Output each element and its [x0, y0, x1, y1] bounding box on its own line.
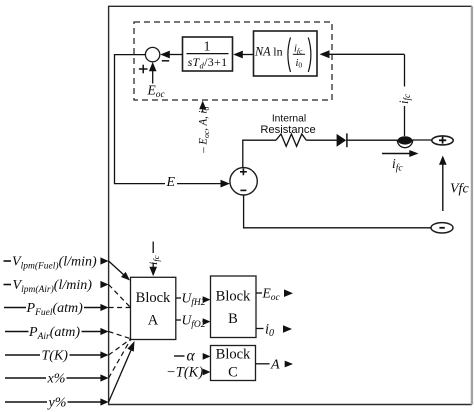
svg-text:– Eoc, A, i0: – Eoc, A, i0: [196, 107, 211, 154]
fan wire input6 to Block A corner (dashed): [109, 339, 131, 378]
svg-text:B: B: [228, 311, 238, 327]
label Internal Resistance: [260, 114, 315, 136]
bottom wire source to minus terminal: [244, 195, 431, 228]
svg-text:x%: x%: [47, 372, 66, 387]
svg-text:Resistance: Resistance: [260, 124, 315, 136]
svg-text:i0: i0: [296, 58, 303, 70]
svg-text:A: A: [270, 357, 280, 372]
Block B: [211, 276, 257, 338]
ifc arrow into Block A: [149, 242, 157, 277]
wire diode to node: [347, 139, 398, 141]
input 3 -PFuel(atm): [4, 301, 109, 318]
wire source top to resistor: [243, 140, 276, 167]
plus sign at summing junction: [139, 65, 148, 74]
rotated label -Eoc, A, i0: [196, 107, 211, 154]
svg-text:−T(K): −T(K): [166, 365, 203, 381]
summing junction: [145, 47, 159, 61]
diode: [337, 133, 347, 147]
svg-text:Block: Block: [216, 347, 251, 363]
fan wire input1 to Block A (solid arrow): [109, 261, 130, 281]
wire transfer function to summing junction: [160, 51, 182, 59]
wire resistor to diode: [306, 139, 336, 141]
wire NA-ln block to transfer function block: [233, 51, 253, 59]
feedback wire ifc into NA-ln block: [320, 50, 405, 58]
signal UfH2 from Block A to Block B: [176, 291, 211, 309]
Eoc input arrow into summing junction: [149, 62, 157, 84]
fan wire input4 to Block A corner (dashed): [109, 332, 131, 339]
label E: [165, 175, 177, 190]
minus sign inside source: [240, 189, 246, 191]
svg-text:NA: NA: [254, 44, 271, 58]
input 6 -x%: [5, 372, 109, 387]
label Vfc: [450, 182, 469, 197]
svg-text:Block: Block: [136, 290, 171, 306]
input alpha into Block C: [174, 348, 211, 365]
fan wire input2 to Block A (dashed): [109, 285, 131, 308]
minus output terminal: [431, 223, 453, 233]
plus output terminal: [432, 136, 453, 145]
Vfc arrow: [439, 156, 447, 212]
wire node to plus terminal: [412, 139, 432, 141]
minus sign at summing junction: [162, 60, 169, 62]
plus sign inside source: [240, 168, 247, 175]
transfer function block 1/(sTd/3+1): [183, 37, 233, 71]
NA ln(ifc/i0) gain block: [254, 31, 318, 76]
voltage source E circle: [230, 168, 257, 195]
rotated label ifc above Block A: [146, 255, 161, 265]
output i0 from Block B: [256, 322, 292, 340]
output Eoc from Block B: [256, 286, 293, 304]
input 5 -T(K): [5, 349, 109, 364]
resistor Internal Resistance: [276, 134, 306, 146]
svg-text:Block: Block: [216, 289, 251, 305]
input 1 -Vlpm(Fuel)(l/min): [4, 255, 109, 272]
svg-text:C: C: [228, 365, 238, 381]
svg-text:A: A: [148, 313, 159, 329]
input 2 -Vlpm(Air)(l/min): [4, 278, 109, 295]
svg-text:PAir(atm): PAir(atm): [28, 325, 80, 342]
outer box: [109, 6, 472, 404]
wire hop under node: [397, 140, 412, 148]
svg-text:E: E: [166, 175, 176, 190]
svg-text:sTd/3+1: sTd/3+1: [188, 55, 228, 71]
current arrow ifc: [382, 150, 419, 157]
Block C: [211, 346, 256, 381]
rotated label ifc on feedback wire: [397, 87, 412, 107]
input 7 -y%: [5, 396, 109, 411]
label ifc: [392, 156, 403, 174]
svg-text:1: 1: [204, 39, 211, 54]
svg-text:α: α: [187, 348, 196, 365]
fan wire input7 to Block A corner (solid arrow): [109, 341, 135, 402]
vertical feedback wire from node: [404, 55, 406, 137]
node junction dot: [398, 136, 412, 144]
output A from Block C: [256, 357, 294, 372]
svg-text:PFuel(atm): PFuel(atm): [26, 301, 84, 318]
svg-text:y%: y%: [47, 396, 67, 411]
svg-text:ln: ln: [273, 44, 282, 58]
svg-text:Vfc: Vfc: [450, 182, 469, 197]
wire summing junction output to E (left and down): [115, 55, 231, 188]
label Eoc: [147, 83, 166, 101]
input -T(K) into Block C: [166, 365, 211, 381]
Block A: [131, 277, 176, 339]
fan wire input3 to Block A (dashed): [109, 307, 131, 309]
input 4 -PAir(atm): [5, 325, 109, 342]
dashed subsystem box: [134, 22, 332, 100]
upward arrow -Eoc,A,i0 into dashed box: [199, 101, 206, 112]
fan wire input5 to Block A corner (dashed): [109, 339, 131, 355]
signal UfO2 from Block A to Block B: [176, 313, 211, 331]
svg-text:T(K): T(K): [42, 349, 69, 364]
